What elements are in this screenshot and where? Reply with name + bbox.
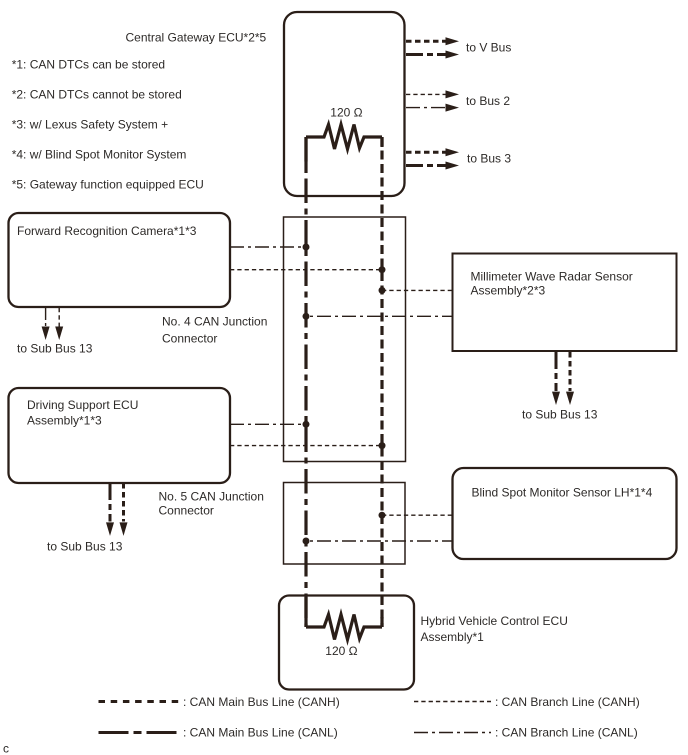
svg-text:: CAN Branch Line (CANL): : CAN Branch Line (CANL) (495, 725, 638, 739)
node: camera CANH junction (379, 266, 386, 273)
svg-text:to Bus 2: to Bus 2 (466, 94, 510, 108)
wire: CANH main bus (vertical dashed, x=382) (380, 137, 383, 627)
wire: to Bus 2 CANH (thin dashed arrow) (406, 93, 446, 95)
svg-text:*1: CAN DTCs can be stored: *1: CAN DTCs can be stored (12, 58, 165, 72)
svg-text:*5: Gateway function equipped: *5: Gateway function equipped ECU (12, 178, 204, 192)
svg-text:to Sub Bus 13: to Sub Bus 13 (47, 540, 123, 554)
svg-text:to Bus 3: to Bus 3 (467, 152, 511, 166)
svg-text:Driving Support ECU: Driving Support ECU (27, 398, 138, 412)
svg-text:Forward Recognition Camera*1*3: Forward Recognition Camera*1*3 (17, 224, 197, 238)
svg-text:to Sub Bus 13: to Sub Bus 13 (17, 341, 93, 355)
svg-text:120 Ω: 120 Ω (325, 644, 357, 658)
svg-text:Millimeter Wave Radar Sensor: Millimeter Wave Radar Sensor (471, 269, 633, 283)
wire: to V Bus CANH (thick dashed arrow) (406, 40, 446, 43)
svg-text:*2: CAN DTCs cannot be stored: *2: CAN DTCs cannot be stored (12, 88, 182, 102)
ECU box U3: Millimeter Wave Radar Sensor Assembly (453, 254, 677, 352)
wire: driving sub-bus CANH arrow (122, 483, 125, 522)
svg-text:*4: w/ Blind Spot Monitor Syst: *4: w/ Blind Spot Monitor System (12, 148, 187, 162)
svg-text:Central Gateway ECU*2*5: Central Gateway ECU*2*5 (126, 31, 267, 45)
resistor R2 (120 ohm, inside Hybrid Vehicle Control ECU) (306, 615, 382, 640)
svg-text:: CAN Main Bus Line (CANL): : CAN Main Bus Line (CANL) (183, 725, 338, 739)
wire: camera sub-bus CANL arrow (45, 308, 47, 327)
svg-text:c: c (3, 741, 9, 755)
svg-text:Hybrid Vehicle Control ECU: Hybrid Vehicle Control ECU (421, 614, 568, 628)
ECU box U1: Central Gateway ECU (284, 12, 405, 196)
wire: camera CANL branch (thin dash-dot) (230, 246, 306, 248)
legend sample: CAN Branch Line CANL (thin dash-dot) (414, 732, 491, 734)
wire: driving support CANL branch (thin dash-dot) (230, 423, 306, 425)
ECU box U5: Blind Spot Monitor Sensor LH (453, 468, 677, 559)
junction box J5: No. 5 CAN Junction Connector (284, 483, 406, 565)
wire: radar CANH branch (thin dashed) (382, 289, 452, 291)
wire: driving sub-bus CANL arrow (109, 483, 112, 522)
svg-text:Assembly*1*3: Assembly*1*3 (27, 414, 102, 428)
svg-text:Connector: Connector (159, 504, 214, 518)
wire: to Bus 3 CANL (thick dash-dot arrow) (406, 164, 446, 167)
ECU box U6: Hybrid Vehicle Control ECU Assembly (279, 596, 414, 690)
wire: to Bus 3 CANH (thick dashed arrow) (406, 151, 446, 154)
node: radar CANH junction (379, 287, 386, 294)
svg-text:Connector: Connector (162, 331, 217, 345)
svg-text:to V Bus: to V Bus (466, 41, 511, 55)
junction box J4: No. 4 CAN Junction Connector (284, 217, 406, 462)
wire: camera sub-bus CANH arrow (58, 308, 60, 327)
node: radar CANL junction (303, 313, 310, 320)
wire: solid corner stubs of main bus at resistors (306, 137, 382, 627)
node: blind spot CANH junction (379, 512, 386, 519)
svg-text:: CAN Main Bus Line (CANH): : CAN Main Bus Line (CANH) (183, 695, 340, 709)
wire: radar sub-bus CANL arrow (555, 352, 558, 391)
svg-text:: CAN Branch Line (CANH): : CAN Branch Line (CANH) (495, 695, 640, 709)
node: camera CANL junction (303, 244, 310, 251)
wire: camera CANH branch (thin dashed) (230, 269, 382, 271)
wire: blind spot CANH branch (thin dashed) (382, 514, 452, 516)
legend sample: CAN Main Bus Line CANL (thick dash-dot) (99, 731, 180, 734)
svg-text:No. 5 CAN Junction: No. 5 CAN Junction (159, 489, 264, 503)
wire: CANL main bus (vertical dash-dot, x=306) (304, 137, 307, 627)
svg-text:to Sub Bus 13: to Sub Bus 13 (522, 407, 598, 421)
ECU box U2: Forward Recognition Camera (9, 213, 231, 307)
node: driving support CANH junction (379, 442, 386, 449)
svg-text:Assembly*1: Assembly*1 (421, 630, 485, 644)
wire: driving support CANH branch (thin dashed) (230, 445, 382, 447)
wire: to Bus 2 CANL (thin dash-dot arrow) (406, 107, 446, 109)
wire: to V Bus CANL (thick dash-dot arrow) (406, 53, 446, 56)
svg-text:*3: w/ Lexus Safety System +: *3: w/ Lexus Safety System + (12, 118, 168, 132)
ECU box U4: Driving Support ECU Assembly (9, 388, 231, 483)
svg-text:No. 4 CAN Junction: No. 4 CAN Junction (162, 315, 267, 329)
resistor R1 (120 ohm, inside Central Gateway ECU) (306, 125, 382, 150)
svg-text:120 Ω: 120 Ω (330, 106, 362, 120)
svg-text:Blind Spot Monitor Sensor LH*1: Blind Spot Monitor Sensor LH*1*4 (472, 486, 653, 500)
legend sample: CAN Branch Line CANH (thin dashed) (414, 701, 491, 703)
legend sample: CAN Main Bus Line CANH (thick dashed) (99, 700, 180, 703)
node: blind spot CANL junction (303, 538, 310, 545)
wire: blind spot CANL branch (thin dash-dot) (306, 540, 452, 542)
wire: radar sub-bus CANH arrow (569, 352, 572, 391)
node: driving support CANL junction (303, 421, 310, 428)
wire: radar CANL branch (thin dash-dot) (306, 315, 452, 317)
svg-text:Assembly*2*3: Assembly*2*3 (471, 284, 546, 298)
